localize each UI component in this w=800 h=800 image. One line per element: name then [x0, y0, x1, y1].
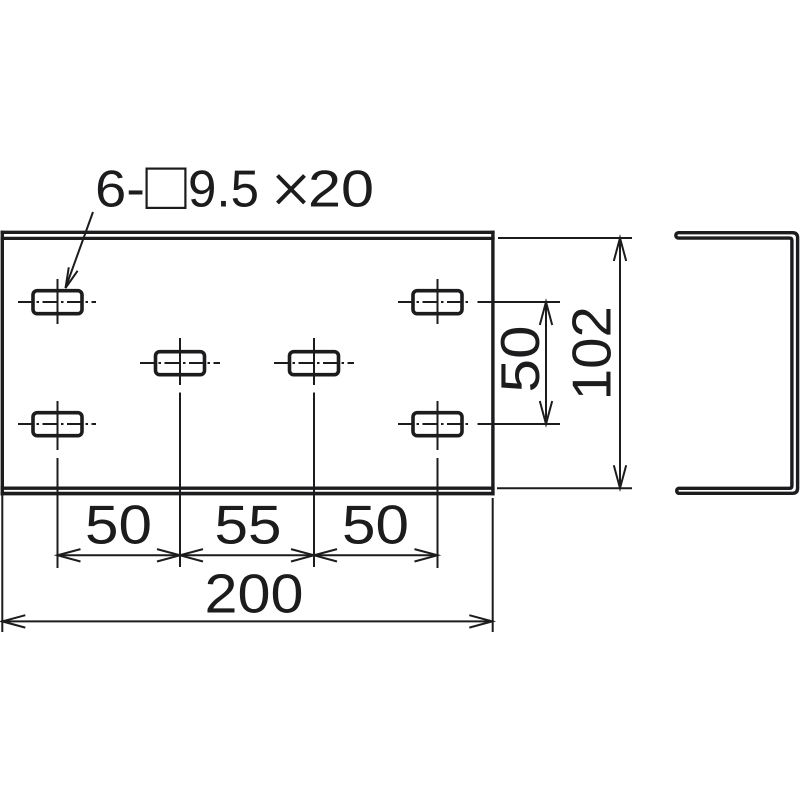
extension line below plate left edge for 200 dim: [1, 495, 3, 632]
leader line from label to top-left slot: [66, 212, 94, 288]
plate top edge inner line: [1, 237, 495, 240]
slot hole bottom-left: [33, 413, 82, 436]
centerline vertical bottom-right slot extending to dimension: [437, 401, 439, 568]
arrowhead up at 50 vertical: [540, 302, 552, 325]
channel side view profile: [676, 233, 798, 494]
arrowhead pair at x=180: [157, 549, 203, 561]
svg-text:55: 55: [215, 494, 282, 556]
svg-text:50: 50: [85, 494, 152, 556]
centerline horizontal middle-left slot: [140, 362, 220, 364]
plate top edge outer line: [1, 231, 495, 234]
extension line top for 102 dim: [498, 237, 632, 239]
svg-text:50: 50: [489, 326, 551, 393]
centerline vertical top-right slot: [437, 279, 439, 324]
arrowhead down at 102: [614, 465, 626, 488]
slot hole middle-left: [156, 352, 205, 375]
slot hole top-right: [413, 291, 462, 314]
extension line right of bottom-right slot for 50 dim: [478, 423, 561, 425]
label text multiplication sign: [278, 176, 305, 204]
arrowhead left at 50-55-50 line: [58, 549, 81, 561]
centerline horizontal bottom-left slot: [18, 423, 96, 425]
slot hole top-left: [33, 291, 82, 314]
svg-text:20: 20: [308, 161, 374, 219]
svg-text:50: 50: [342, 494, 409, 556]
centerline horizontal top-right slot: [398, 301, 471, 303]
extension line bottom for 102 dim: [497, 487, 632, 489]
label square symbol for square hole: [147, 169, 186, 208]
svg-text:9.5: 9.5: [188, 161, 259, 219]
centerline vertical bottom-left slot extending to dimension: [57, 401, 59, 568]
centerline horizontal top-left slot: [18, 301, 96, 303]
svg-text:200: 200: [205, 563, 304, 625]
plate left edge: [1, 231, 4, 496]
centerline vertical top-left slot: [57, 279, 59, 324]
arrowhead up at 102: [614, 238, 626, 261]
plate bottom edge outer line: [1, 492, 495, 496]
leader arrowhead: [66, 267, 78, 288]
svg-text:6-: 6-: [95, 161, 145, 219]
svg-text:102: 102: [561, 306, 623, 400]
centerline horizontal bottom-right slot: [398, 423, 471, 425]
centerline vertical middle-left slot extending to dimension: [179, 338, 181, 567]
centerline horizontal middle-right slot: [274, 362, 354, 364]
dimension line 50-55-50: [58, 554, 438, 556]
slot hole bottom-right: [413, 413, 462, 436]
extension line below plate right edge for 200 dim: [492, 498, 494, 632]
dimension line 200: [2, 620, 492, 622]
arrowhead right at 200 line: [469, 615, 492, 627]
arrowhead pair at x=314: [291, 549, 337, 561]
plate bottom edge inner line: [1, 487, 495, 490]
arrowhead right at 50-55-50 line: [415, 549, 438, 561]
dimension line 50 vertical right: [545, 302, 547, 424]
dimension line 102 vertical: [619, 238, 621, 488]
centerline vertical middle-right slot extending to dimension: [313, 338, 315, 567]
plate right edge: [491, 231, 494, 496]
arrowhead left at 200 line: [2, 615, 25, 627]
extension line right of top-right slot for 50 dim: [478, 301, 561, 303]
slot hole middle-right: [290, 352, 339, 375]
arrowhead down at 50 vertical: [540, 401, 552, 424]
